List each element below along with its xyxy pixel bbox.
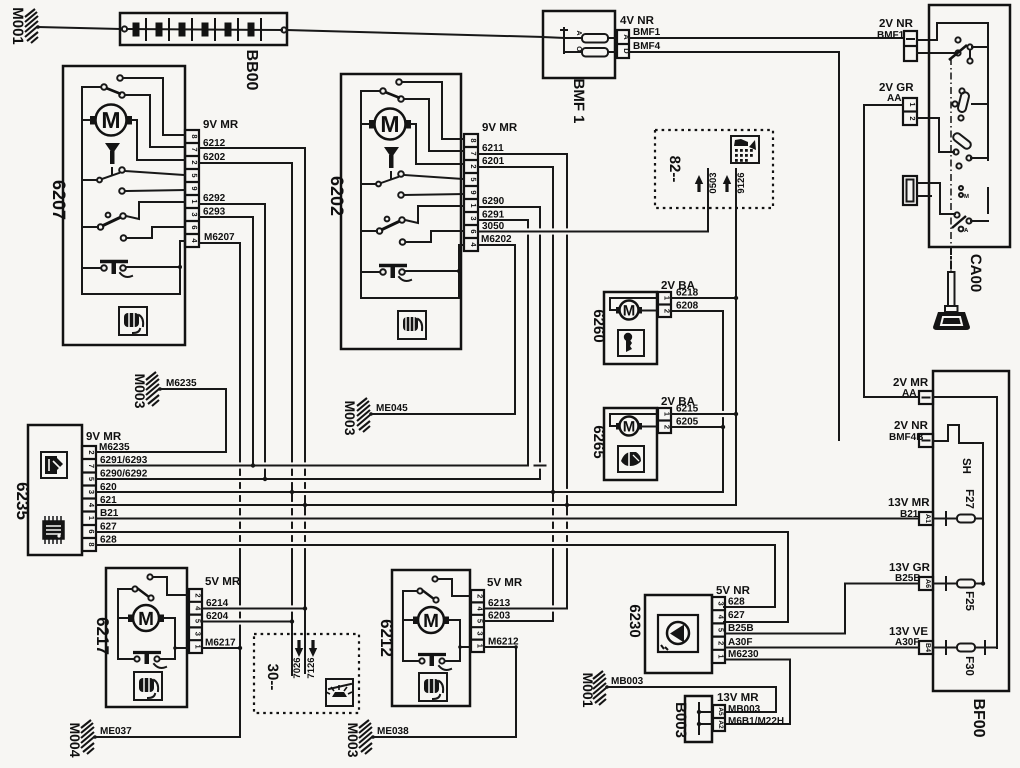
arrow up + label 3050 (82--)	[695, 175, 703, 192]
window/lock unit 6202 (front right door)	[327, 74, 518, 349]
ignition switch CA00	[929, 5, 1010, 292]
wire 6205 (6265 pin2)	[671, 426, 723, 428]
lock motor 6260 (rear left)	[590, 280, 695, 364]
wire 6215 (6265 pin1)	[671, 413, 736, 415]
wire row 620	[96, 311, 723, 492]
arrow up + label 6219 (82--)	[723, 175, 731, 192]
icon car silhouette (6265)	[618, 446, 644, 472]
ground M001 (MB003)	[580, 671, 776, 712]
control unit 6235	[13, 425, 122, 555]
6212 icon: door open	[419, 673, 447, 701]
svg-text:B21: B21	[100, 508, 119, 519]
svg-text:BMF1: BMF1	[633, 27, 661, 38]
connector 6260 pins 1,2	[658, 292, 672, 317]
svg-text:6291/6293: 6291/6293	[100, 455, 148, 466]
connector BMF4B (2V NR)	[889, 420, 933, 447]
svg-text:82--: 82--	[666, 156, 683, 183]
6207 interior: door contact switch	[82, 241, 185, 294]
wire 6291 from 6202 pin3	[478, 220, 528, 466]
icon door-key (6235)	[41, 452, 67, 478]
wire 6218 (6260 pin1)	[671, 297, 736, 299]
svg-text:M6202: M6202	[481, 234, 512, 245]
icon interior lamp (30--)	[326, 679, 353, 706]
svg-text:9V MR: 9V MR	[482, 122, 518, 134]
svg-text:F30: F30	[963, 656, 975, 676]
wire BB00 to BMF1	[287, 30, 543, 37]
lock motor 6265 (rear right)	[590, 396, 695, 480]
svg-text:9V MR: 9V MR	[203, 119, 239, 131]
svg-text:O: O	[575, 46, 582, 52]
wire 6214 (6217 pin4)	[202, 608, 305, 610]
wire 6208 (6260 pin2)	[671, 310, 723, 312]
svg-text:A: A	[964, 227, 969, 234]
6207 interior: key switch	[82, 202, 185, 241]
wire 3050 from 6202 pin6 to 82 unit	[478, 169, 708, 232]
svg-text:6217: 6217	[93, 617, 112, 655]
svg-text:8: 8	[190, 134, 199, 138]
svg-text:BMF4B: BMF4B	[889, 432, 923, 443]
svg-text:M: M	[101, 107, 120, 133]
svg-text:1: 1	[717, 654, 726, 658]
svg-text:7026: 7026	[292, 657, 303, 678]
icon seat heater (82--)	[731, 136, 759, 163]
svg-text:M003: M003	[345, 722, 361, 757]
wire row 621	[96, 169, 736, 505]
svg-text:F25: F25	[963, 591, 975, 611]
connector 6207 (pins 8,7,2,5,9,1,3,6,4)	[185, 130, 199, 247]
svg-text:M6230: M6230	[728, 649, 759, 660]
wire row B21 to BF00	[96, 518, 919, 520]
wire 6213 (6212 pin4)	[484, 608, 567, 610]
arrow down + label 6207 (30--)	[295, 640, 303, 657]
svg-text:6: 6	[190, 225, 199, 229]
ground M004 (ME037)	[67, 720, 240, 758]
svg-text:6202: 6202	[327, 176, 347, 216]
wire 2V NR pin to ignition switch	[917, 39, 937, 41]
svg-text:ME038: ME038	[377, 726, 409, 737]
svg-text:3: 3	[87, 490, 96, 494]
wire M6235 from pin2 up to ground	[96, 389, 226, 452]
6217 interior	[118, 574, 189, 668]
svg-text:6213: 6213	[488, 598, 511, 609]
connector A6 (13V GR)	[889, 562, 933, 590]
icon key (6260)	[618, 330, 644, 356]
wire 2V GR pin2 into CA00	[917, 118, 954, 152]
6207 interior: lock switch	[82, 167, 185, 194]
svg-text:M003: M003	[342, 400, 358, 435]
6207 icon: door open	[119, 307, 147, 335]
junction B003	[672, 692, 759, 742]
siren 6230	[626, 585, 751, 673]
wire row 6290/6292	[96, 478, 540, 480]
6207 interior: motor M	[82, 105, 185, 161]
svg-text:9: 9	[469, 190, 478, 194]
svg-text:3: 3	[469, 216, 478, 220]
ground M001 (top left)	[9, 7, 40, 45]
wire 6293 from 6207 pin3	[199, 217, 253, 466]
svg-text:3050: 3050	[482, 221, 505, 232]
svg-text:6290: 6290	[482, 196, 505, 207]
dashed unit 30-- (interior lighting)	[254, 634, 359, 713]
svg-text:2: 2	[87, 450, 96, 454]
svg-text:13V MR: 13V MR	[888, 497, 930, 509]
svg-text:5: 5	[87, 477, 96, 481]
svg-text:M6217: M6217	[205, 638, 236, 649]
svg-text:9: 9	[190, 186, 199, 190]
svg-text:M: M	[623, 419, 636, 436]
contact 3 (demarrage lever)	[952, 132, 973, 151]
fuse F30	[933, 641, 997, 676]
svg-text:2: 2	[190, 160, 199, 164]
connector 6230 (pins 3,4,5,2,1)	[712, 597, 726, 663]
contact 1 (+APC)	[955, 37, 960, 42]
wire 6204 (6217 pin5)	[202, 621, 292, 623]
svg-text:6204: 6204	[206, 611, 229, 622]
wire 6203 (6212 pin5)	[484, 620, 553, 622]
ground M003 (ME038)	[345, 720, 516, 758]
svg-text:2V NR: 2V NR	[879, 18, 914, 30]
battery BB00	[120, 13, 287, 91]
svg-text:M6207: M6207	[204, 232, 235, 243]
svg-text:M003: M003	[132, 373, 148, 408]
svg-text:6: 6	[87, 529, 96, 533]
svg-text:3: 3	[194, 632, 203, 636]
svg-text:6201: 6201	[482, 156, 505, 167]
connector B4 (13V VE)	[889, 626, 933, 654]
svg-text:7126: 7126	[306, 657, 317, 678]
svg-text:M: M	[623, 303, 636, 320]
svg-text:5: 5	[469, 177, 478, 181]
wire 6290 from 6202 pin1	[478, 207, 540, 479]
connector 6202 (pins 8,7,2,5,9,1,3,6,4)	[464, 134, 478, 251]
svg-text:ME037: ME037	[100, 726, 132, 737]
wire 6292 from 6207 pin1	[199, 204, 265, 479]
svg-text:3: 3	[190, 212, 199, 216]
svg-text:B003: B003	[672, 702, 689, 738]
svg-text:A30F: A30F	[895, 637, 919, 648]
svg-text:A1: A1	[924, 514, 931, 523]
svg-text:MB003: MB003	[611, 676, 644, 687]
wire M001 to BB00	[38, 27, 120, 29]
svg-text:6212: 6212	[203, 138, 226, 149]
svg-text:6218: 6218	[676, 288, 699, 299]
svg-text:6208: 6208	[676, 301, 699, 312]
6212 interior	[403, 576, 471, 670]
contact 4 (antivol)	[959, 186, 963, 190]
svg-text:ME045: ME045	[376, 403, 408, 414]
svg-text:6265: 6265	[590, 425, 607, 458]
svg-text:3: 3	[717, 602, 726, 606]
svg-text:6202: 6202	[203, 152, 226, 163]
fuse F25	[933, 577, 985, 612]
svg-text:6293: 6293	[203, 207, 226, 218]
svg-text:M: M	[380, 111, 399, 137]
wire bottom connector to contact 4	[917, 183, 955, 214]
svg-text:2: 2	[194, 593, 203, 597]
ground M003 (M6235)	[132, 372, 226, 409]
svg-text:M001: M001	[9, 7, 26, 45]
window/lock unit 6207 (front left door)	[49, 66, 239, 345]
svg-text:1: 1	[87, 516, 96, 520]
ground M003 (ME045)	[342, 398, 515, 436]
connector 6265 pins 1,2	[658, 408, 672, 433]
svg-text:2V NR: 2V NR	[894, 420, 929, 432]
svg-text:AA: AA	[902, 388, 916, 399]
arrow down + label 6217 (30--)	[309, 640, 317, 657]
connector 6217 (pins 2,4,5,3,1)	[189, 589, 203, 653]
svg-text:7: 7	[87, 464, 96, 468]
wire BMF1 pin A to CA00 connector	[629, 37, 904, 39]
fuse F27	[933, 489, 983, 525]
wire row 628 to 6230 pin3	[96, 545, 775, 607]
svg-text:F27: F27	[963, 489, 975, 509]
svg-text:5V MR: 5V MR	[487, 577, 523, 589]
svg-text:CA00: CA00	[967, 254, 984, 292]
svg-text:5: 5	[190, 173, 199, 177]
wire M6202 from 6202 pin4 to ME045	[478, 245, 515, 414]
svg-text:4V NR: 4V NR	[620, 15, 655, 27]
svg-text:621: 621	[100, 495, 117, 506]
internal bus from AA to F30	[933, 397, 997, 648]
svg-text:BMF 1: BMF 1	[570, 79, 587, 124]
svg-text:A6: A6	[924, 579, 931, 588]
fuse box BF00	[933, 371, 1009, 738]
contact 2 (accessoires)	[959, 88, 964, 93]
svg-text:A30F: A30F	[728, 637, 752, 648]
dashed unit 82-- (heated seats control)	[655, 130, 773, 208]
wire BMF4 pin D down right side	[629, 52, 839, 440]
6207 interior: lock knob	[105, 143, 120, 175]
svg-text:AA: AA	[887, 93, 901, 104]
svg-text:M: M	[138, 609, 154, 630]
wire row 6291/6293	[96, 465, 528, 467]
svg-text:B4: B4	[924, 643, 931, 652]
icon ECU chip (6235)	[43, 516, 64, 544]
connector 2V GR AA	[879, 82, 917, 125]
svg-text:6: 6	[469, 229, 478, 233]
wire 6211 from 6202 pin7	[478, 154, 567, 608]
svg-text:6260: 6260	[590, 309, 607, 342]
svg-text:BMF1: BMF1	[877, 30, 905, 41]
svg-text:8: 8	[87, 542, 96, 546]
wire crossing gaps (verticals broken over horizontal wires)	[234, 228, 730, 624]
svg-text:628: 628	[100, 535, 117, 546]
svg-text:6211: 6211	[482, 143, 504, 154]
svg-text:A5: A5	[717, 707, 724, 716]
svg-text:M004: M004	[67, 722, 83, 757]
svg-text:A2: A2	[717, 720, 724, 729]
svg-text:2: 2	[908, 116, 917, 120]
wire 6201 from 6202 pin2	[478, 167, 553, 621]
connector 2V NR (CA00 feed)	[877, 18, 917, 61]
wire AA from 2V GR pin1 down to BF00	[864, 105, 919, 397]
wire M6230 (6230 pin1) to B003 A2	[725, 660, 790, 725]
wire A30F (6230 pin2) to BF00 B4	[725, 647, 919, 649]
svg-text:1: 1	[908, 102, 917, 106]
shunt SH	[933, 425, 983, 583]
svg-text:6203: 6203	[488, 611, 511, 622]
6202 interior (same switches/motor as 6207)	[361, 79, 464, 339]
svg-text:0503: 0503	[708, 172, 719, 193]
svg-text:2: 2	[476, 594, 485, 598]
wire M6207 from 6207 pin4	[199, 243, 240, 737]
svg-text:6205: 6205	[676, 417, 699, 428]
svg-text:B25B: B25B	[895, 573, 921, 584]
svg-text:6290/6292: 6290/6292	[100, 469, 148, 480]
svg-text:6292: 6292	[203, 193, 226, 204]
svg-text:6212: 6212	[377, 619, 396, 657]
svg-text:2: 2	[469, 164, 478, 168]
svg-text:30--: 30--	[264, 664, 281, 691]
svg-text:MB003: MB003	[728, 704, 761, 715]
svg-text:3: 3	[476, 631, 485, 635]
svg-text:620: 620	[100, 482, 117, 493]
svg-text:1: 1	[469, 203, 478, 207]
svg-text:1: 1	[190, 199, 199, 203]
connector (CA00 bottom, unlabelled)	[903, 176, 917, 205]
svg-text:8: 8	[469, 138, 478, 142]
svg-text:13V MR: 13V MR	[717, 692, 759, 704]
wire M6212 (6212 pin1) to ME038	[484, 647, 516, 737]
svg-text:SH: SH	[960, 458, 972, 474]
svg-text:BMF4: BMF4	[633, 41, 661, 52]
svg-text:5: 5	[717, 628, 726, 632]
svg-text:627: 627	[100, 522, 117, 533]
svg-text:9126: 9126	[736, 172, 747, 193]
svg-text:M6B1/M22H: M6B1/M22H	[728, 716, 784, 727]
svg-text:M6235: M6235	[99, 442, 130, 453]
svg-text:6215: 6215	[676, 404, 699, 415]
svg-text:BB00: BB00	[243, 50, 260, 91]
svg-text:M: M	[423, 611, 439, 632]
svg-text:6207: 6207	[49, 180, 69, 220]
svg-text:7: 7	[469, 151, 478, 155]
wire M6217 (6217 pin1)	[202, 647, 240, 649]
fuse box BMF1	[543, 11, 661, 124]
svg-text:5V NR: 5V NR	[716, 585, 751, 597]
svg-text:BF00: BF00	[970, 698, 987, 737]
connector A1 (13V MR)	[888, 497, 933, 525]
wire 6212 from 6207 pin7	[199, 148, 305, 673]
svg-text:6291: 6291	[482, 210, 505, 221]
connector 6235 (pins 2,7,5,3,4,1,6,8)	[82, 446, 96, 551]
svg-text:627: 627	[728, 610, 745, 621]
svg-text:6214: 6214	[206, 598, 229, 609]
connector AA (2V MR)	[893, 377, 933, 404]
key symbol below CA00	[933, 247, 970, 330]
wire B25B (6230 pin5) to BF00 A6	[725, 584, 919, 634]
svg-text:6235: 6235	[13, 482, 32, 520]
6217 icon: door open	[134, 672, 162, 700]
svg-text:B25B: B25B	[728, 623, 754, 634]
svg-text:M: M	[964, 193, 969, 200]
connector 6212 (pins 2,4,5,3,1)	[471, 590, 485, 652]
svg-text:6230: 6230	[626, 604, 643, 637]
svg-text:7: 7	[190, 147, 199, 151]
wire 6202 from 6207 pin2	[199, 163, 292, 675]
svg-text:M6235: M6235	[166, 378, 197, 389]
svg-text:M6212: M6212	[488, 637, 519, 648]
svg-text:5V MR: 5V MR	[205, 576, 241, 588]
connector B003 (pins A5,A2)	[713, 705, 725, 731]
rear window unit 6212	[377, 570, 523, 706]
svg-text:2: 2	[717, 641, 726, 645]
svg-text:A: A	[575, 30, 582, 35]
wire row 627 to 6230 pin4	[96, 532, 788, 622]
6207 interior: window switch	[82, 75, 185, 268]
svg-text:628: 628	[728, 597, 745, 608]
rear window unit 6217	[93, 568, 241, 707]
